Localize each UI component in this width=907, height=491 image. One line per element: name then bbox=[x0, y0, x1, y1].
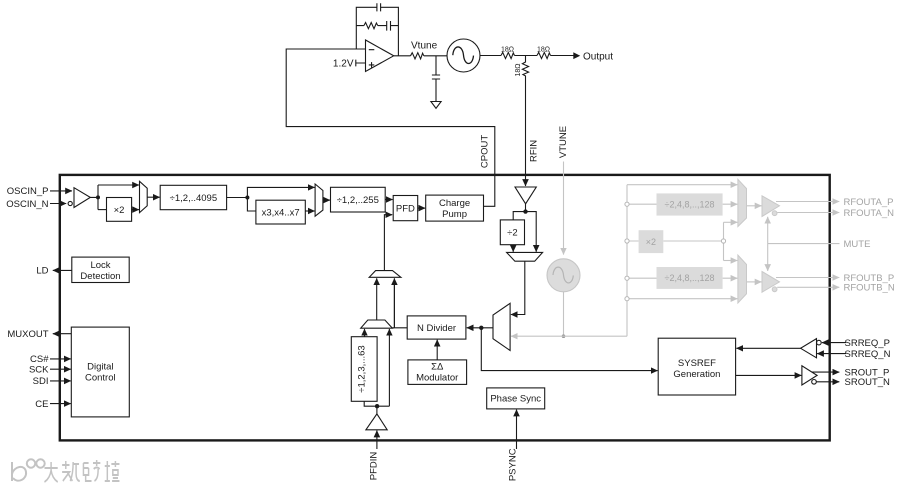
svg-text:RFOUTA_P: RFOUTA_P bbox=[844, 197, 894, 208]
wire bus to x2 bbox=[627, 240, 724, 242]
svg-text:SCK: SCK bbox=[29, 365, 49, 376]
wire VCO output down bbox=[563, 292, 565, 336]
Lock Detection box bbox=[72, 257, 129, 282]
wire feedback inner branch bbox=[356, 25, 398, 27]
svg-text:Digital: Digital bbox=[87, 362, 113, 373]
wire SDI bbox=[50, 380, 71, 382]
wire to mux1 top input bbox=[98, 184, 139, 186]
svg-text:RFOUTA_N: RFOUTA_N bbox=[844, 208, 895, 219]
ground bbox=[431, 102, 441, 109]
divider B box gray bbox=[657, 267, 723, 289]
wire SRREQ_N bbox=[817, 353, 846, 355]
svg-text:Charge: Charge bbox=[439, 198, 470, 209]
N Divider box bbox=[407, 316, 466, 339]
wire div2 to RF mux bbox=[512, 245, 514, 252]
svg-text:Output: Output bbox=[583, 51, 613, 62]
wire node B to multiplier bbox=[247, 198, 256, 212]
svg-text:Generation: Generation bbox=[673, 369, 720, 380]
arrow Output bbox=[573, 52, 580, 59]
SYSREF Generation box bbox=[658, 338, 735, 395]
wire R divider output bbox=[227, 197, 248, 199]
watermark char 4 bbox=[105, 461, 120, 481]
svg-text:÷1,2,3,...63: ÷1,2,3,...63 bbox=[357, 345, 368, 392]
svg-text:Lock: Lock bbox=[90, 260, 110, 271]
wire CPOUT to op-amp inverting input bbox=[286, 49, 495, 206]
wire SYSREF to SROUT buffer bbox=[736, 374, 802, 376]
wire node C to div2 bbox=[513, 212, 525, 220]
svg-text:Pump: Pump bbox=[442, 209, 467, 220]
wire bus to muxA top bbox=[627, 184, 737, 186]
wire multiplier to mux2 bottom bbox=[305, 210, 314, 212]
svg-text:SROUT_N: SROUT_N bbox=[845, 377, 891, 388]
wire R3 down to RFIN bbox=[525, 78, 527, 186]
wire R1 to R2 bbox=[515, 55, 538, 57]
wire MUTE vertical bbox=[767, 217, 769, 244]
node F (VCO join) bbox=[562, 334, 566, 338]
buffer B gray bbox=[762, 272, 780, 293]
wire upper mux output to PFD bbox=[384, 215, 392, 271]
PFD box bbox=[393, 196, 418, 221]
node tap 3 bbox=[625, 276, 629, 280]
VCO internal (gray) bbox=[547, 259, 580, 292]
svg-text:LD: LD bbox=[36, 266, 48, 277]
svg-text:PFD: PFD bbox=[396, 203, 415, 214]
doubler x2 box gray bbox=[639, 230, 664, 253]
wire RFOUTA_N bbox=[777, 212, 839, 214]
svg-text:SRREQ_N: SRREQ_N bbox=[845, 349, 891, 360]
wire feedback outer loop bbox=[356, 7, 398, 56]
wire PSYNC pin bbox=[516, 410, 518, 449]
wire mux1 to R divider bbox=[147, 196, 160, 198]
wire node D to SYSREF Generation bbox=[481, 328, 657, 371]
mux MA gray bbox=[738, 179, 747, 226]
svg-text:RFOUTB_N: RFOUTB_N bbox=[844, 283, 895, 294]
chip boundary bbox=[60, 175, 830, 441]
Digital Control box bbox=[71, 327, 129, 417]
buffer A gray bbox=[762, 196, 780, 217]
svg-text:÷2,4,8,..,128: ÷2,4,8,..,128 bbox=[665, 273, 715, 283]
mux MB gray bbox=[738, 255, 747, 303]
wire mux M4 output to N Divider bbox=[467, 327, 493, 329]
svg-text:RFIN: RFIN bbox=[529, 140, 540, 162]
input buffer U2 bbox=[68, 201, 72, 205]
sigma delta modulator box bbox=[408, 360, 467, 385]
wire N Divider output to upper mux bbox=[392, 283, 407, 328]
watermark char 2 bbox=[62, 461, 80, 481]
wire node C bypass to RF mux bbox=[526, 212, 537, 252]
watermark char 3 bbox=[83, 460, 100, 481]
wire to x2 doubler bbox=[98, 209, 107, 211]
wire op-amp output to Vtune bbox=[394, 55, 447, 57]
svg-text:ΣΔ: ΣΔ bbox=[431, 362, 444, 373]
node tap 5 bbox=[721, 239, 725, 243]
node B junction bbox=[245, 196, 249, 200]
node tap 4 bbox=[625, 297, 629, 301]
charge pump box bbox=[426, 195, 484, 221]
svg-text:VTUNE: VTUNE bbox=[558, 126, 569, 158]
resistor R_out bbox=[411, 53, 424, 59]
svg-text:÷1,2,..255: ÷1,2,..255 bbox=[337, 195, 379, 206]
wire SCK bbox=[50, 368, 71, 370]
wire CS# bbox=[50, 358, 71, 360]
wire muxB to bufferB bbox=[747, 281, 762, 283]
resistor R1 18ohm bbox=[501, 52, 515, 58]
svg-text:÷1,2,..4095: ÷1,2,..4095 bbox=[170, 193, 217, 204]
wire x2 to mux1 bottom input bbox=[132, 209, 139, 211]
wire mux2 to R divider 2 bbox=[323, 199, 330, 201]
wire gray RF bus vertical bbox=[626, 185, 628, 337]
wire div63 to lower mux left input bbox=[364, 329, 366, 337]
mux M6 (lower mux) bbox=[361, 320, 393, 328]
wire SRREQ buffer to SYSREF bbox=[736, 347, 800, 349]
wire bus to divider A bbox=[627, 203, 737, 205]
svg-text:Phase Sync: Phase Sync bbox=[490, 394, 541, 405]
wire div63 bottom to PFDIN node bbox=[364, 401, 389, 406]
wire MUXOUT bbox=[53, 333, 72, 335]
Phase Sync box bbox=[487, 388, 545, 409]
svg-text:1.2V: 1.2V bbox=[333, 58, 354, 69]
wire PFDIN pin bbox=[376, 431, 378, 450]
watermark char 1 bbox=[44, 462, 57, 482]
svg-text:×2: ×2 bbox=[646, 237, 656, 247]
mux M4 (N divider source mux) bbox=[493, 303, 510, 350]
wire RFOUTB_P bbox=[776, 277, 839, 279]
capacitor C3 (Vtune to ground) bbox=[432, 56, 440, 102]
resistor R2 18ohm bbox=[537, 52, 551, 58]
wire x2 branch vertical bbox=[723, 222, 725, 260]
wire R div 2 to PFD bbox=[385, 199, 392, 201]
svg-text:Control: Control bbox=[85, 373, 116, 384]
svg-text:SYSREF: SYSREF bbox=[678, 358, 716, 369]
wire RFIN buffer output bbox=[525, 204, 527, 212]
wire Lock Detection to LD pin bbox=[53, 269, 72, 271]
svg-text:18Ω: 18Ω bbox=[515, 63, 522, 76]
node tap 2 bbox=[625, 239, 629, 243]
svg-text:÷2: ÷2 bbox=[507, 228, 518, 239]
VCO source circle bbox=[447, 39, 480, 72]
svg-text:MUTE: MUTE bbox=[844, 239, 871, 250]
svg-text:×2: ×2 bbox=[114, 205, 125, 216]
wire RF mux output to N-path mux bbox=[511, 261, 525, 314]
wire sigma delta to N Divider bbox=[436, 340, 438, 360]
svg-text:Vtune: Vtune bbox=[411, 41, 438, 52]
mux M2 bbox=[315, 184, 323, 216]
resistor R3 18ohm vertical bbox=[522, 56, 528, 79]
svg-text:PSYNC: PSYNC bbox=[508, 448, 519, 481]
svg-text:18Ω: 18Ω bbox=[501, 47, 514, 54]
wire SROUT_N bbox=[816, 381, 839, 383]
svg-text:SDI: SDI bbox=[33, 376, 49, 387]
node A (osc buffer output) bbox=[90, 185, 98, 210]
wire VCO to R1 bbox=[480, 55, 501, 57]
wire CE bbox=[50, 403, 71, 405]
capacitor C1 (outer feedback) bbox=[377, 3, 381, 11]
wire node B to mux2 top bbox=[247, 187, 314, 197]
node C junction below RFIN buffer bbox=[523, 209, 527, 213]
svg-text:x3,x4..x7: x3,x4..x7 bbox=[262, 207, 300, 218]
node 1.2V input bbox=[356, 60, 366, 67]
R pre-divider box bbox=[160, 185, 226, 209]
SRREQ buffer U5 bbox=[801, 339, 817, 358]
svg-text:÷2,4,8,..,128: ÷2,4,8,..,128 bbox=[665, 200, 715, 210]
node tap 1 bbox=[625, 202, 629, 206]
wire x2 branch to muxB top bbox=[724, 260, 738, 262]
node E junction (PFDIN) bbox=[375, 404, 379, 408]
resistor R_fb (inner feedback) bbox=[364, 23, 378, 29]
wire muxA to bufferA bbox=[747, 205, 762, 207]
wire lower mux output to upper mux bbox=[376, 278, 378, 320]
svg-text:N Divider: N Divider bbox=[417, 323, 456, 334]
PFDIN buffer U4 bbox=[376, 406, 378, 414]
wire bus bottom to muxB bottom bbox=[627, 298, 737, 300]
doubler x2 box bbox=[107, 198, 132, 222]
mux M1 bbox=[140, 181, 148, 212]
wire SRREQ_P bbox=[822, 342, 846, 344]
mux M3 (RF input mux) bbox=[507, 252, 543, 261]
svg-text:OSCIN_N: OSCIN_N bbox=[6, 199, 48, 210]
multiplier box bbox=[256, 200, 305, 224]
wire PFDIN direct to lower mux right input bbox=[388, 329, 390, 406]
svg-text:CPOUT: CPOUT bbox=[480, 135, 491, 168]
wire SROUT_P bbox=[812, 371, 839, 373]
svg-text:MUXOUT: MUXOUT bbox=[7, 329, 48, 340]
capacitor C2 (inner feedback) bbox=[387, 21, 391, 31]
svg-text:Modulator: Modulator bbox=[416, 373, 458, 384]
wire gray feedback to mux M4 bbox=[511, 335, 627, 337]
divider div63 box bbox=[351, 337, 377, 402]
wire R2 to Output bbox=[551, 55, 574, 57]
wire bus to divider B bbox=[627, 277, 737, 279]
svg-text:SRREQ_P: SRREQ_P bbox=[845, 338, 890, 349]
divider A box gray bbox=[657, 193, 723, 215]
wire RFOUTB_N bbox=[777, 286, 839, 288]
R divider 2 box bbox=[331, 187, 386, 212]
wire OSCIN_N bbox=[50, 203, 66, 205]
wire OSCIN_P bbox=[50, 190, 72, 192]
RFIN input buffer U3 bbox=[515, 187, 536, 204]
SROUT buffer U6 bbox=[802, 366, 817, 385]
wire PFD to charge pump bbox=[418, 207, 426, 209]
divider div2 box bbox=[500, 220, 524, 245]
wire MUTE bbox=[768, 243, 840, 245]
wire RFOUTA_P bbox=[776, 201, 839, 203]
wire VTUNE gray bbox=[563, 162, 565, 255]
svg-text:PFDIN: PFDIN bbox=[369, 452, 380, 481]
op-amp U1 bbox=[366, 40, 394, 72]
svg-text:CE: CE bbox=[35, 399, 48, 410]
svg-text:OSCIN_P: OSCIN_P bbox=[7, 186, 49, 197]
svg-text:18Ω: 18Ω bbox=[537, 47, 550, 54]
watermark logo bbox=[12, 462, 26, 481]
node D junction bbox=[479, 326, 483, 330]
wire x2 branch to muxA bottom bbox=[724, 221, 738, 223]
mux M5 (upper feedback mux) bbox=[369, 271, 401, 278]
svg-text:Detection: Detection bbox=[80, 271, 120, 282]
